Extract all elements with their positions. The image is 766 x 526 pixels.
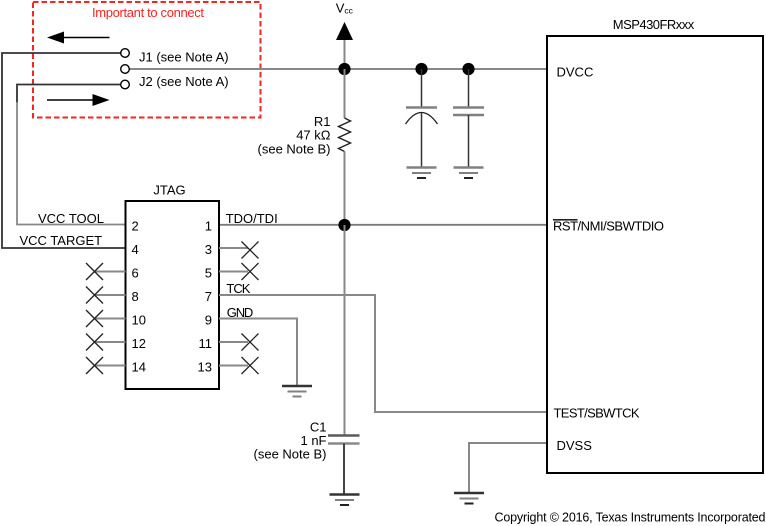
jumper J1 pin [121, 49, 130, 58]
node: Vcc junction [338, 63, 350, 75]
svg-text:RST/NMI/SBWTDIO: RST/NMI/SBWTDIO [553, 219, 664, 234]
svg-text:9: 9 [205, 313, 212, 328]
ground for C3 [454, 168, 484, 179]
svg-text:5: 5 [205, 266, 212, 281]
pin label RST/NMI/SBWTDIO [553, 219, 664, 234]
no-connect pin 6 [86, 263, 126, 280]
wire J1 to JTAG pin 4 [2, 53, 126, 248]
node: RST junction [338, 219, 350, 231]
capacitor C1 [328, 436, 360, 495]
arrow left [47, 32, 110, 44]
svg-text:VCC TARGET: VCC TARGET [20, 233, 103, 248]
no-connect pin 14 [86, 357, 126, 374]
Vcc symbol [336, 22, 353, 69]
svg-text:2: 2 [132, 219, 139, 234]
wire node A to C1 [344, 225, 346, 435]
svg-text:DVCC: DVCC [557, 65, 594, 80]
svg-text:1: 1 [205, 219, 212, 234]
resistor R1 [339, 69, 351, 152]
wire R1 to node A [344, 152, 346, 226]
svg-text:J2 (see Note A): J2 (see Note A) [139, 74, 229, 89]
svg-text:11: 11 [199, 336, 213, 351]
wire Vcc rail to DVCC [130, 68, 548, 70]
no-connect pin 5 [219, 263, 259, 280]
pin numbers right column [198, 219, 212, 375]
capacitor C3 (bypass) [453, 69, 484, 167]
svg-text:TEST/SBWTCK: TEST/SBWTCK [554, 406, 640, 421]
svg-text:6: 6 [132, 266, 139, 281]
important-to-connect dashed outline [33, 2, 261, 118]
svg-text:MSP430FRxxx: MSP430FRxxx [613, 17, 695, 32]
svg-text:TDO/TDI: TDO/TDI [226, 211, 278, 226]
node: cap C3 junction [462, 63, 474, 75]
ground for JTAG GND [282, 386, 312, 397]
svg-text:4: 4 [132, 242, 139, 257]
arrow right [47, 94, 110, 106]
svg-text:12: 12 [132, 336, 146, 351]
svg-text:(see Note B): (see Note B) [254, 447, 327, 462]
svg-text:TCK: TCK [226, 281, 250, 296]
capacitor C2 (bypass, polarized) [406, 69, 438, 167]
MSP430 box [547, 36, 763, 473]
no-connect pin 3 [219, 242, 259, 259]
ground for C2 [407, 168, 437, 179]
no-connect pin 8 [86, 287, 126, 304]
svg-text:13: 13 [198, 360, 212, 375]
wire pin 9 to ground [219, 319, 297, 387]
label R1 value [258, 114, 331, 157]
svg-text:8: 8 [132, 289, 139, 304]
svg-text:7: 7 [205, 289, 212, 304]
svg-text:VCC TOOL: VCC TOOL [38, 211, 104, 226]
svg-text:JTAG: JTAG [153, 183, 185, 198]
label C1 value [254, 420, 327, 462]
svg-text:DVSS: DVSS [557, 438, 593, 453]
node: cap C2 junction [415, 63, 427, 75]
svg-text:J1 (see Note A): J1 (see Note A) [139, 50, 229, 65]
svg-text:3: 3 [205, 242, 212, 257]
no-connect pin 12 [86, 334, 126, 351]
svg-text:Vcc: Vcc [336, 0, 354, 15]
wire TCK to TEST/SBWTCK [219, 295, 547, 412]
no-connect pin 10 [86, 310, 126, 327]
no-connect pin 13 [219, 357, 259, 374]
ground for DVSS [454, 493, 484, 504]
svg-text:(see Note B): (see Note B) [258, 142, 331, 157]
svg-text:Copyright © 2016, Texas Instru: Copyright © 2016, Texas Instruments Inco… [495, 511, 766, 525]
wire DVSS to ground [469, 443, 547, 493]
no-connect pin 11 [219, 334, 259, 351]
wire TDO/TDI to RST [219, 224, 547, 226]
svg-text:10: 10 [132, 313, 146, 328]
svg-text:14: 14 [132, 360, 146, 375]
jumper center pin [121, 65, 130, 74]
jumper J2 pin [121, 80, 130, 89]
JTAG connector box [126, 201, 220, 389]
ground for C1 [330, 495, 360, 506]
pin numbers left column [132, 219, 146, 375]
wire J2 to JTAG pin 2 [17, 85, 121, 104]
svg-text:47 kΩ: 47 kΩ [296, 128, 331, 143]
svg-text:Important to connect: Important to connect [92, 5, 204, 20]
